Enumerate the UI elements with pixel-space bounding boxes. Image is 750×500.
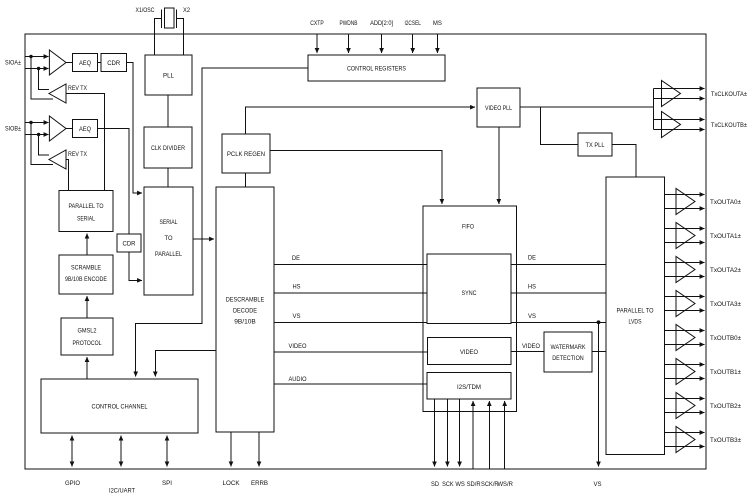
block GMSL2 PROTOCOL — [61, 318, 113, 355]
wire descramble to control channel — [155, 351, 216, 377]
svg-text:CONTROL REGISTERS: CONTROL REGISTERS — [347, 66, 407, 73]
buffer TxOUTA2 — [665, 257, 705, 283]
wire control channel to GMSL2 — [86, 357, 88, 379]
transmitter REV TX A — [49, 84, 66, 103]
node junction dot SIOA2 — [37, 67, 40, 70]
buffer input B — [49, 116, 66, 141]
buffer TxOUTB0 — [665, 325, 705, 351]
svg-text:CDR: CDR — [123, 241, 136, 248]
svg-text:HS: HS — [528, 284, 537, 291]
buffer TxOUTB3 — [665, 427, 705, 453]
wire VS right — [511, 321, 606, 323]
wire REV TX A return inner — [39, 69, 49, 90]
wire buffer A to AEQ A — [66, 62, 73, 64]
svg-text:TxOUTB0±: TxOUTB0± — [710, 335, 741, 342]
wire VIDEO right — [511, 351, 544, 353]
svg-text:SIOA±: SIOA± — [5, 60, 21, 67]
svg-text:SD/R: SD/R — [467, 481, 481, 488]
wire SIOB input line 1 — [25, 122, 49, 124]
svg-text:VS: VS — [528, 313, 537, 320]
wire HS left — [274, 292, 427, 294]
wire DE right — [511, 263, 606, 265]
wire REV TX B return inner — [39, 135, 49, 156]
node junction dot SIOB1 — [29, 121, 32, 124]
block CDR A — [101, 54, 127, 72]
svg-text:GMSL2: GMSL2 — [78, 328, 97, 335]
block CONTROL CHANNEL — [41, 379, 198, 433]
svg-text:I2CSEL: I2CSEL — [404, 20, 421, 27]
svg-text:SYNC: SYNC — [462, 290, 477, 297]
wire serial-to-parallel to descramble — [193, 238, 214, 240]
wire AUDIO left — [274, 383, 427, 385]
wire SCK — [446, 399, 448, 467]
svg-text:CDR: CDR — [107, 60, 120, 67]
svg-text:DETECTION: DETECTION — [552, 355, 584, 362]
buffer TxOUTB1 — [665, 359, 705, 385]
svg-text:VS: VS — [293, 313, 302, 320]
svg-text:TxCLKOUTA±: TxCLKOUTA± — [711, 91, 747, 98]
svg-text:DE: DE — [528, 255, 537, 262]
wire scramble to parallel-to-serial — [86, 234, 88, 256]
svg-text:PARALLEL TO: PARALLEL TO — [617, 308, 654, 315]
svg-text:X2: X2 — [183, 7, 190, 14]
crystal X1/X2 — [154, 8, 183, 55]
wire SD/R — [472, 401, 474, 469]
buffer TxOUTA3 — [665, 291, 705, 317]
block PARALLEL TO SERIAL — [59, 191, 113, 232]
svg-text:SCK: SCK — [442, 481, 454, 488]
block FIFO — [423, 206, 517, 412]
wire WS/R — [504, 401, 506, 469]
svg-text:SCRAMBLE: SCRAMBLE — [71, 265, 102, 272]
svg-text:HS: HS — [293, 284, 302, 291]
wire watermark to parallel-to-LVDS — [592, 351, 606, 353]
node junction dot SIOB2 — [37, 133, 40, 136]
wire SPI port — [166, 436, 168, 467]
svg-text:X1/OSC: X1/OSC — [136, 7, 155, 14]
svg-text:TxOUTA0±: TxOUTA0± — [710, 199, 741, 206]
wire AEQ B to CDR B — [98, 129, 130, 235]
block CDR B — [117, 234, 141, 252]
svg-text:TxOUTA1±: TxOUTA1± — [710, 233, 741, 240]
wire buffer B to AEQ B — [66, 128, 73, 130]
wire PLL to CLK DIVIDER — [167, 95, 169, 127]
wire MS pin — [436, 35, 438, 54]
block PARALLEL TO LVDS — [606, 177, 665, 455]
svg-text:AUDIO: AUDIO — [289, 376, 307, 383]
block VIDEO FIFO — [428, 338, 512, 365]
block AEQ A — [73, 54, 98, 72]
svg-text:LVDS: LVDS — [629, 319, 643, 326]
svg-text:VIDEO: VIDEO — [289, 343, 307, 350]
wire REV TX A feed — [66, 94, 105, 191]
buffer TxOUTB2 — [665, 393, 705, 419]
wire PCLK REGEN to descramble — [245, 173, 247, 187]
svg-text:DESCRAMBLE: DESCRAMBLE — [226, 297, 265, 304]
svg-text:PARALLEL: PARALLEL — [155, 251, 182, 258]
block SCRAMBLE 9B/10B ENCODE — [59, 255, 113, 294]
svg-text:WS: WS — [455, 481, 465, 488]
svg-text:VIDEO PLL: VIDEO PLL — [485, 105, 512, 112]
wire VS left — [274, 321, 427, 323]
wire PCLK REGEN to VIDEO PLL — [246, 107, 476, 134]
block SERIAL TO PARALLEL — [144, 187, 193, 295]
buffer TxCLKOUTA — [653, 81, 704, 107]
block DESCRAMBLE DECODE 9B/10B — [216, 187, 274, 432]
svg-text:DE: DE — [292, 255, 301, 262]
wire PCLK REGEN to FIFO — [270, 151, 442, 204]
wire LOCK output — [230, 432, 232, 467]
wire CXTP pin — [316, 35, 318, 54]
wire SIOB input line 2 — [25, 134, 49, 136]
wire GPIO port — [71, 436, 73, 467]
wire VIDEO left — [274, 351, 428, 353]
svg-text:VIDEO: VIDEO — [460, 349, 478, 356]
svg-text:ADD[2:0]: ADD[2:0] — [370, 20, 393, 27]
svg-text:PROTOCOL: PROTOCOL — [73, 340, 102, 347]
svg-text:WATERMARK: WATERMARK — [551, 344, 587, 351]
svg-text:9B/10B ENCODE: 9B/10B ENCODE — [65, 276, 108, 283]
node junction dot SIOA1 — [29, 55, 32, 58]
buffer TxOUTA0 — [665, 189, 705, 215]
block TX PLL — [578, 133, 612, 156]
wire ERRB output — [258, 432, 260, 467]
wire control registers to control channel — [136, 68, 308, 377]
svg-text:VIDEO: VIDEO — [522, 343, 540, 350]
svg-text:SPI: SPI — [162, 480, 172, 487]
svg-text:CONTROL CHANNEL: CONTROL CHANNEL — [92, 404, 148, 411]
svg-text:SERIAL: SERIAL — [77, 216, 95, 223]
wire SIOA input line 1 — [25, 56, 49, 58]
svg-text:CLK DIVIDER: CLK DIVIDER — [151, 145, 185, 152]
svg-text:REV TX: REV TX — [68, 85, 88, 92]
svg-text:PCLK REGEN: PCLK REGEN — [227, 151, 265, 158]
svg-text:PARALLEL TO: PARALLEL TO — [69, 203, 104, 210]
svg-text:VS: VS — [594, 481, 603, 488]
wire TX PLL to parallel-to-LVDS — [612, 145, 636, 178]
svg-text:AEQ: AEQ — [79, 60, 91, 67]
chip boundary — [25, 34, 706, 469]
svg-text:SD: SD — [431, 481, 439, 488]
svg-text:GPIO: GPIO — [65, 480, 80, 487]
svg-text:AEQ: AEQ — [79, 126, 91, 133]
node VS junction dot — [597, 320, 601, 324]
svg-text:CXTP: CXTP — [310, 20, 324, 27]
wire VIDEO PLL to TX PLL — [540, 107, 578, 144]
block SYNC — [427, 254, 511, 324]
svg-text:SIOB±: SIOB± — [5, 126, 21, 133]
svg-text:TxOUTB1±: TxOUTB1± — [710, 369, 741, 376]
svg-text:ERRB: ERRB — [251, 480, 268, 487]
wire VIDEO PLL to FIFO — [498, 127, 500, 204]
wire GMSL2 to scramble — [86, 296, 88, 318]
block CLK DIVIDER — [144, 127, 192, 168]
svg-text:WS/R: WS/R — [497, 481, 513, 488]
svg-text:PWDNB: PWDNB — [340, 20, 358, 27]
wire WS — [459, 399, 461, 467]
wire PWDNB pin — [348, 35, 350, 54]
wire CDR B to serial-to-parallel — [129, 252, 142, 280]
wire SIOA input line 2 — [25, 68, 49, 70]
svg-text:TxCLKOUTB±: TxCLKOUTB± — [711, 122, 747, 129]
block I2S/TDM — [427, 373, 511, 400]
wire VS to bottom — [598, 322, 600, 466]
buffer TxOUTA1 — [665, 223, 705, 249]
svg-text:I2C/UART: I2C/UART — [109, 488, 135, 495]
block VIDEO PLL — [477, 88, 520, 127]
svg-text:TX PLL: TX PLL — [586, 142, 605, 149]
wire REV TX A return outer — [31, 57, 53, 100]
wire VIDEO PLL output to clock buffers — [520, 106, 653, 108]
buffer TxCLKOUTB — [653, 112, 704, 138]
wire ADD[2:0] pin — [381, 35, 383, 54]
svg-text:I2S/TDM: I2S/TDM — [457, 384, 481, 391]
transmitter REV TX B — [49, 150, 66, 169]
block AEQ B — [73, 120, 98, 138]
wire I2CSEL pin — [412, 35, 414, 54]
svg-text:PLL: PLL — [163, 73, 174, 80]
svg-text:TxOUTA2±: TxOUTA2± — [710, 267, 741, 274]
wire CDR A to serial-to-parallel — [127, 63, 143, 194]
wire CLK DIVIDER to serial-to-parallel — [167, 168, 169, 187]
wire SCK/R — [488, 401, 490, 469]
block WATERMARK DETECTION — [544, 332, 592, 372]
wire DE left — [274, 263, 427, 265]
svg-text:REV TX: REV TX — [68, 151, 88, 158]
svg-text:TxOUTB2±: TxOUTB2± — [710, 403, 741, 410]
svg-text:SERIAL: SERIAL — [160, 219, 178, 226]
svg-text:LOCK: LOCK — [223, 480, 241, 487]
wire HS right — [511, 292, 606, 294]
wire SD — [434, 399, 436, 467]
svg-text:TxOUTA3±: TxOUTA3± — [710, 301, 741, 308]
block PLL — [145, 55, 192, 95]
svg-text:DECODE: DECODE — [233, 308, 258, 315]
svg-text:SCK/R: SCK/R — [481, 481, 499, 488]
wire clock buffer bracket — [652, 89, 654, 130]
block PCLK REGEN — [222, 134, 270, 173]
wire AEQ A to CDR A — [98, 62, 102, 64]
svg-text:FIFO: FIFO — [462, 224, 474, 231]
wire I2C/UART port — [120, 436, 122, 467]
wire REV TX B return outer — [31, 123, 53, 165]
block CONTROL REGISTERS — [308, 55, 445, 81]
svg-text:TO: TO — [165, 235, 173, 242]
svg-text:MS: MS — [433, 20, 443, 27]
wire REV TX B feed — [66, 160, 69, 191]
svg-text:TxOUTB3±: TxOUTB3± — [710, 437, 741, 444]
svg-text:9B/10B: 9B/10B — [234, 319, 256, 326]
buffer input A — [49, 50, 66, 75]
